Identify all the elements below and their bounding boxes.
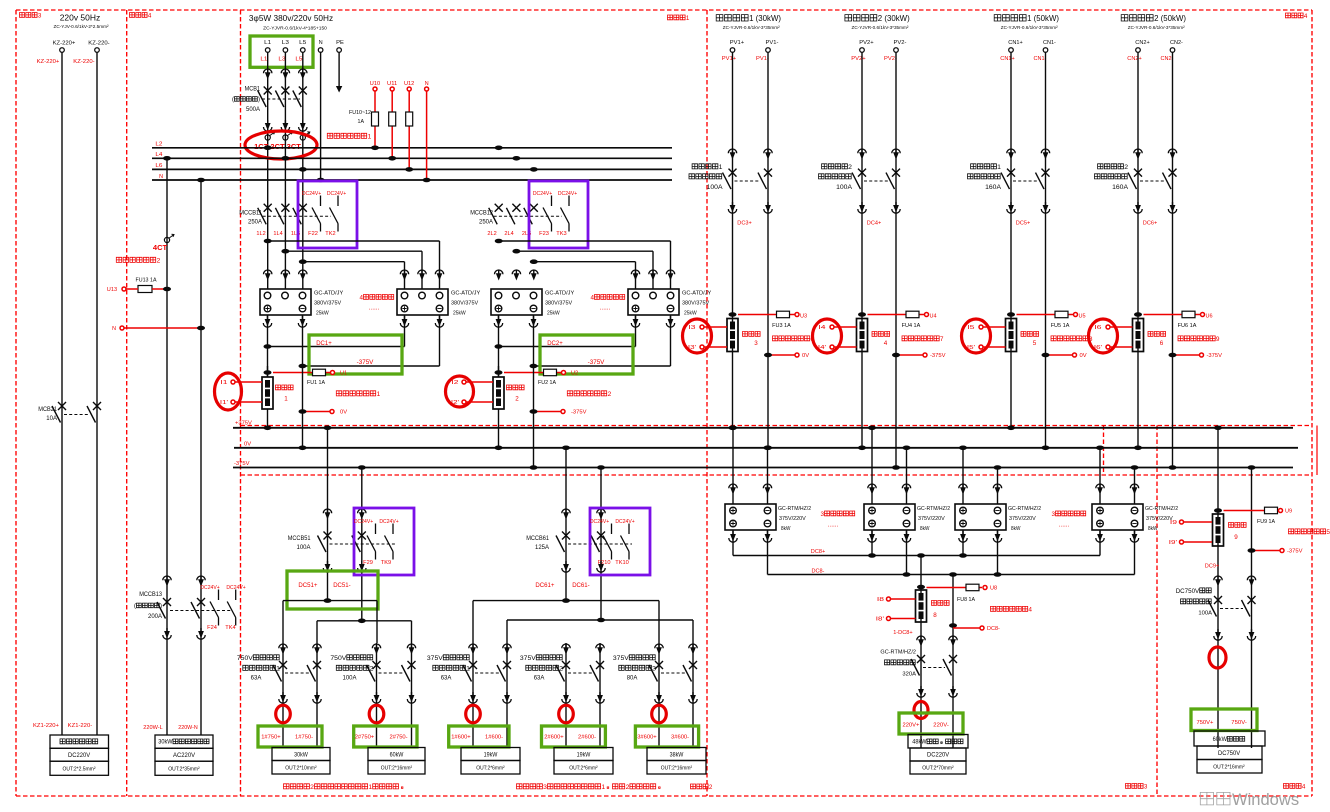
svg-text:GC-RTM/HZ/2: GC-RTM/HZ/2 <box>778 506 811 512</box>
wire feeder3 right <box>506 643 508 748</box>
wire I9 red <box>1184 521 1213 523</box>
svg-text:380V/375V: 380V/375V <box>314 301 342 307</box>
label DC metering1 <box>336 391 380 398</box>
label 分流器4 n <box>884 340 888 347</box>
drawout CN2 top <box>1134 149 1177 160</box>
wire N red <box>423 91 431 182</box>
label DC metering5 <box>1289 529 1330 536</box>
svg-text:2: 2 <box>1124 164 1128 171</box>
label 分流器5 n <box>1033 340 1037 347</box>
switch DC750 text3 <box>1198 611 1212 617</box>
wire U11 red <box>388 91 396 161</box>
wire feeder5 right <box>692 643 694 748</box>
net label L1 red <box>260 57 267 63</box>
svg-text:N: N <box>319 40 323 46</box>
label 分流器4 <box>872 332 890 337</box>
svg-text:38kW: 38kW <box>670 753 684 759</box>
module box GC-RTM 3 <box>955 504 1006 530</box>
wire DC minus link <box>534 315 675 366</box>
net label I8 <box>877 597 884 603</box>
svg-text:1: 1 <box>719 164 723 171</box>
svg-text:320A: 320A <box>902 672 916 678</box>
terminal KZ-220+ <box>60 48 65 53</box>
wire shunt1 down <box>264 409 272 430</box>
output box B text1 <box>158 739 209 746</box>
label TK10 <box>615 560 629 566</box>
wire phase L5 <box>302 52 304 288</box>
wire DC8- terminal red <box>949 623 984 630</box>
feeder3 out <box>476 766 505 772</box>
svg-text:L6: L6 <box>155 163 162 169</box>
bus label 0V <box>244 442 251 448</box>
wire I8 red <box>891 598 916 600</box>
svg-text:8: 8 <box>933 612 937 619</box>
net label KZ1-220- <box>68 723 93 729</box>
fuse FU11 <box>389 112 396 126</box>
net label 2#750+ <box>355 735 375 741</box>
output box 30kW <box>155 735 213 775</box>
svg-text:DC24V+: DC24V+ <box>354 519 373 525</box>
net label PV1+ red <box>722 56 737 62</box>
annotation box green DC2 <box>540 335 633 374</box>
wire rtm3 left out <box>959 530 967 556</box>
svg-text:KZ-220+: KZ-220+ <box>53 41 76 47</box>
svg-text:1L2: 1L2 <box>256 231 265 237</box>
svg-text:Windows: Windows <box>1232 791 1299 809</box>
shunt 分流器2 <box>493 366 504 409</box>
svg-text:1: 1 <box>284 395 288 402</box>
net label I9 <box>1170 520 1177 526</box>
bus label L6 <box>155 163 162 169</box>
wire module1 plus out <box>263 315 271 377</box>
svg-text:U5: U5 <box>1079 314 1086 320</box>
annotation circle feeder2 <box>369 705 384 723</box>
breaker MCCB51 rating <box>297 545 311 551</box>
svg-text:ZC-YJV-0.6/1kV-2*2.5mm²: ZC-YJV-0.6/1kV-2*2.5mm² <box>54 24 109 30</box>
svg-text:U11: U11 <box>387 81 397 87</box>
svg-text:L4: L4 <box>155 152 163 158</box>
terminal -375V b <box>561 410 565 414</box>
wire feed module2 a <box>499 241 671 289</box>
svg-text:FU5 1A: FU5 1A <box>1051 323 1070 329</box>
output box text3 <box>63 767 96 773</box>
fuse FU9 label <box>1257 519 1275 525</box>
net label 3#600+ <box>637 735 657 741</box>
wire rtm2 left out <box>868 530 876 556</box>
bus label L2 <box>155 142 162 148</box>
drawout DC750 bottom <box>1214 629 1256 640</box>
terminal I8p <box>887 617 891 621</box>
net label CN1+ red <box>1000 56 1015 62</box>
svg-text:OUT:2*6mm²: OUT:2*6mm² <box>569 766 598 772</box>
svg-text:250A: 250A <box>248 220 262 226</box>
svg-text:125A: 125A <box>535 545 549 551</box>
terminal CN2- <box>1170 48 1175 53</box>
wire feeder1 right <box>316 643 318 748</box>
aux label DC24V+ MCCB61 a <box>590 519 609 525</box>
svg-text:DC24V+: DC24V+ <box>327 191 346 197</box>
svg-text:FU2 1A: FU2 1A <box>538 380 556 386</box>
annotation box green feeder2 <box>354 726 417 747</box>
svg-text:DC2+: DC2+ <box>547 340 563 347</box>
label F210 <box>598 560 611 566</box>
svg-text:I2': I2' <box>451 400 459 406</box>
label 4 modules parallel <box>360 294 394 301</box>
net label PV2- red <box>884 56 897 62</box>
drawout feeder5 bottom <box>655 692 697 703</box>
switch CN1 text3 <box>985 184 1001 191</box>
note circuit2 <box>284 784 403 791</box>
label dots a <box>828 521 839 528</box>
svg-text:): ) <box>258 97 260 103</box>
svg-text:U4: U4 <box>930 314 938 320</box>
wire PV2+ main <box>858 52 866 450</box>
switch PV2 text3 <box>836 184 852 191</box>
svg-text:3: 3 <box>543 784 547 791</box>
terminal U4 <box>925 313 929 317</box>
wire rtm1 right out <box>763 530 771 575</box>
svg-text:380V/375V: 380V/375V <box>545 301 573 307</box>
feeder1 text2 <box>243 665 280 672</box>
svg-text:DC5+: DC5+ <box>1016 221 1031 227</box>
svg-text:8kW: 8kW <box>920 526 930 532</box>
svg-text:DC24V+: DC24V+ <box>615 519 634 525</box>
watermark activate windows <box>1200 791 1299 809</box>
title CN2 <box>1121 13 1186 23</box>
shunt 分流器8 <box>916 585 927 622</box>
svg-text:PE: PE <box>336 40 344 46</box>
annotation box green DC1 <box>309 335 402 374</box>
net label I1p <box>220 400 228 406</box>
svg-text:2: 2 <box>626 784 630 791</box>
switch DC750 text1 <box>1176 588 1212 595</box>
net label U13 <box>107 287 117 293</box>
svg-text:PV1+: PV1+ <box>722 56 737 62</box>
drawout PV2 top <box>858 149 900 160</box>
module box MCCB111 GC-ATD/JY <box>260 289 311 315</box>
drawout MCCB61 bottom <box>562 561 605 572</box>
svg-text:DC8+: DC8+ <box>811 549 826 555</box>
junction after MCCB11 <box>264 239 307 264</box>
svg-text:GC-RTM/HZ/2: GC-RTM/HZ/2 <box>1145 506 1178 512</box>
label cabinet2 <box>691 784 713 791</box>
wire 220W-L <box>166 158 168 735</box>
wire rtm3 left in <box>959 446 967 505</box>
label 3 modules parallel b <box>1052 511 1086 518</box>
fuse FU3 label <box>772 323 791 329</box>
svg-text:GC-ATD/JY: GC-ATD/JY <box>314 291 344 297</box>
breaker MCCB13 rating <box>148 614 162 620</box>
terminal CN1- <box>1043 48 1048 53</box>
wire U13 red <box>126 287 171 292</box>
label cabinet3 right <box>1126 783 1148 790</box>
note circuit3 <box>517 784 661 791</box>
shunt 分流器4 <box>857 312 868 351</box>
annotation circle 220V <box>914 702 928 719</box>
svg-text:1#600-: 1#600- <box>485 735 503 741</box>
fuse FU5 <box>1055 311 1068 318</box>
switch PV2 poles <box>852 169 900 190</box>
net label DC6+ <box>1143 221 1158 227</box>
terminal U2 <box>562 371 566 375</box>
svg-text:2: 2 <box>157 257 161 264</box>
svg-text:160A: 160A <box>1112 184 1128 191</box>
aux label DC24V+ MCCB11 a <box>302 191 321 197</box>
feeder4 out <box>569 766 598 772</box>
wire feeder5 left <box>658 643 660 748</box>
feeder4 text3 <box>534 676 545 682</box>
net label -375V b <box>571 410 587 416</box>
annotation circle I1 <box>215 373 242 410</box>
terminal PV1+ <box>730 48 735 53</box>
svg-text:I5': I5' <box>967 345 975 351</box>
drawout feeder3 top <box>469 644 511 655</box>
wire CN2+ main <box>1134 52 1142 450</box>
wire I1 red <box>231 380 262 404</box>
junction L4 tap <box>163 156 171 161</box>
svg-text:4: 4 <box>1302 783 1306 790</box>
drawout CN1 bottom <box>1007 202 1050 213</box>
svg-text:375V: 375V <box>520 655 536 662</box>
wire I6 red <box>1106 325 1133 349</box>
wire CN2 term red <box>1169 353 1200 358</box>
net label CN1- red <box>1034 56 1047 62</box>
label dots <box>369 304 380 311</box>
annotation ellipse CT red <box>245 131 317 159</box>
svg-text:DC61-: DC61- <box>572 582 590 589</box>
wire feed module2 c <box>534 262 636 289</box>
aux label DC24V+ a <box>200 585 219 591</box>
aux contact F210 <box>603 524 612 560</box>
svg-text:0V: 0V <box>802 353 809 359</box>
svg-text:25kW: 25kW <box>316 311 329 317</box>
svg-text:......: ...... <box>1059 521 1070 528</box>
svg-text:0V: 0V <box>340 410 347 416</box>
svg-text:CN1+: CN1+ <box>1000 56 1015 62</box>
svg-text:TK2: TK2 <box>325 231 335 237</box>
bus label -375V <box>234 461 250 467</box>
drawout feeder4 bottom <box>562 692 604 703</box>
wire rtm4 left in <box>1096 446 1104 505</box>
svg-text:-375V: -375V <box>588 359 606 366</box>
svg-text:4: 4 <box>591 294 595 301</box>
net label DC1+ <box>316 340 332 347</box>
wire feeder2 left <box>376 643 378 748</box>
label DC metering 9 <box>1178 336 1220 343</box>
svg-text:OUT:2*16mm²: OUT:2*16mm² <box>1213 765 1245 771</box>
svg-text:5: 5 <box>1033 340 1037 347</box>
label cabinet3 <box>20 12 42 19</box>
wire I4 red <box>830 325 857 349</box>
svg-text:-375V: -375V <box>234 461 250 467</box>
svg-text:4: 4 <box>884 340 888 347</box>
svg-text:60kW: 60kW <box>390 753 404 759</box>
svg-text:2 (30kW): 2 (30kW) <box>878 13 910 23</box>
net label U10 <box>370 81 380 87</box>
feeder3 text3 <box>441 676 452 682</box>
switch CN2 text2 <box>1095 174 1128 179</box>
feeder5 kw <box>670 753 684 759</box>
aux label DC24V+ MCCB51 a <box>354 519 373 525</box>
switch feeder4 <box>556 661 604 682</box>
label 分流器9 n <box>1234 534 1238 541</box>
annotation box green feeder3 <box>449 726 509 747</box>
bus DC8- <box>768 572 1135 577</box>
wire CN1 shunt to fuse red <box>1017 314 1074 316</box>
aux label DC24V+ MCCB12 a <box>533 191 552 197</box>
label DC metering 8 <box>1051 336 1093 343</box>
label DC metering 7 <box>902 336 944 343</box>
wire shunt2 down <box>495 409 503 450</box>
svg-text:750V+: 750V+ <box>1197 720 1214 726</box>
label 4CT <box>153 243 168 252</box>
CT 4CT symbol <box>164 234 174 242</box>
svg-text:100A: 100A <box>1198 611 1212 617</box>
wire PV2- main <box>892 52 900 470</box>
svg-text:220W-L: 220W-L <box>143 725 163 731</box>
svg-text:N: N <box>159 174 163 180</box>
svg-text:U1: U1 <box>340 371 347 377</box>
svg-text:9: 9 <box>1216 336 1220 343</box>
svg-text:48kW: 48kW <box>912 739 926 746</box>
drawout contacts module inputs <box>264 270 444 281</box>
svg-text:750V-: 750V- <box>1231 720 1247 726</box>
label F29 <box>363 560 373 566</box>
svg-text:GC-ATD/JY: GC-ATD/JY <box>682 291 712 297</box>
svg-text:KZ-220+: KZ-220+ <box>37 59 60 65</box>
net label U6 <box>1206 314 1213 320</box>
label TK4 <box>225 625 235 631</box>
breaker MCCB12 rating <box>479 220 493 226</box>
wire rtm2 right in <box>903 446 911 505</box>
label DC metering4 <box>991 606 1033 613</box>
terminal label PV1+ <box>730 40 745 46</box>
rtm4 text2 <box>1146 516 1173 522</box>
svg-text:4CT: 4CT <box>153 243 168 252</box>
net label I4p <box>818 345 826 351</box>
wire feeder2 right <box>411 643 413 748</box>
svg-text:FU13 1A: FU13 1A <box>136 277 157 283</box>
svg-text:I5: I5 <box>967 325 974 331</box>
net label 0V a <box>340 410 347 416</box>
terminal I9p <box>1180 540 1184 544</box>
svg-text:8kW: 8kW <box>1011 526 1021 532</box>
net label DC9+ <box>1205 564 1220 570</box>
drawout feeder2 top <box>372 644 415 655</box>
switch CN1 poles <box>1001 169 1050 190</box>
svg-text:FU1 1A: FU1 1A <box>307 380 325 386</box>
svg-text:U12: U12 <box>404 81 414 87</box>
svg-text:CN2-: CN2- <box>1170 40 1183 46</box>
feeder5 text1 <box>613 655 655 662</box>
svg-text:U3: U3 <box>800 314 807 320</box>
output box feeder1 <box>272 748 330 775</box>
svg-text:1 (50kW): 1 (50kW) <box>1027 13 1059 23</box>
output box feeder2 <box>368 748 425 775</box>
label cabinet4 bottom right <box>1284 783 1306 790</box>
svg-text:250A: 250A <box>479 220 493 226</box>
net label I2p <box>451 400 459 406</box>
svg-text:-375V: -375V <box>571 410 587 416</box>
net label 2#600- <box>578 735 596 741</box>
label DC metering2 <box>567 391 611 398</box>
annotation circle feeder4 <box>559 705 574 723</box>
svg-text:1A: 1A <box>358 119 365 125</box>
switch feeder5 <box>649 661 697 682</box>
wire DC minus link <box>303 315 444 366</box>
label F23 <box>539 231 549 237</box>
switch DC750 text2 <box>1181 599 1212 604</box>
wire rtm1 left in <box>729 426 737 505</box>
cable spec PV2 <box>852 25 909 31</box>
svg-text:L5: L5 <box>295 57 302 63</box>
output 60kW text1 <box>1213 736 1245 743</box>
fuse FU2 <box>544 369 557 376</box>
net label -375V right <box>1287 549 1303 555</box>
wire I9p red <box>1184 541 1213 543</box>
label F24 <box>207 625 217 631</box>
net label U12 <box>404 81 414 87</box>
svg-text:......: ...... <box>600 304 611 311</box>
svg-text:CN2-: CN2- <box>1161 56 1174 62</box>
wire module1 minus out <box>298 315 306 368</box>
net label DC51- <box>333 582 351 589</box>
rtm2 text2 <box>918 516 945 522</box>
wire KZ-220+ <box>61 52 63 735</box>
terminal label CN2+ <box>1135 40 1150 46</box>
feeder1 text3 <box>251 676 262 682</box>
breaker MCCB61 name <box>526 536 549 542</box>
net label PV2+ red <box>851 56 866 62</box>
svg-text:OUT:2*70mm²: OUT:2*70mm² <box>922 766 954 772</box>
svg-text:I3': I3' <box>688 345 696 351</box>
output box text1 <box>60 739 98 744</box>
annotation box purple MCCB11 <box>298 181 357 248</box>
svg-text:2L4: 2L4 <box>504 231 513 237</box>
switch feeder1 <box>273 661 321 682</box>
svg-text:TK3: TK3 <box>556 231 566 237</box>
svg-text:63A: 63A <box>441 676 452 682</box>
label cabinet4 <box>130 12 152 19</box>
svg-text:AC220V: AC220V <box>173 753 195 759</box>
svg-text:1#750+: 1#750+ <box>261 735 281 741</box>
svg-text:I9': I9' <box>1169 540 1177 546</box>
drawout contact MCCB13 top <box>163 576 205 587</box>
svg-text:TK9: TK9 <box>381 560 391 566</box>
svg-text:I2: I2 <box>451 380 458 386</box>
terminal U8 <box>983 586 987 590</box>
svg-text:I6': I6' <box>1094 345 1102 351</box>
wire I8p red <box>891 618 916 620</box>
wire PE with ground arrow <box>336 52 342 92</box>
feeder2 out <box>381 766 413 772</box>
feeder2 text1 <box>330 655 372 662</box>
drawout CN1 top <box>1007 149 1050 160</box>
drawout PV1 top <box>728 149 772 160</box>
svg-text:25kW: 25kW <box>684 311 697 317</box>
label 分流器5 <box>1021 332 1039 337</box>
svg-text:1-DC8+: 1-DC8+ <box>893 630 913 636</box>
wire DC750 neg <box>1248 465 1256 748</box>
aux contact TK9 <box>385 524 394 560</box>
svg-text:PV2-: PV2- <box>884 56 897 62</box>
output box feeder3 <box>461 748 520 775</box>
aux contact F29 <box>367 524 376 560</box>
module text kw 2 <box>453 311 466 317</box>
aux label DC24V+ MCCB51 b <box>379 519 398 525</box>
title 3phase <box>249 13 333 23</box>
module text kw 1 <box>547 311 560 317</box>
